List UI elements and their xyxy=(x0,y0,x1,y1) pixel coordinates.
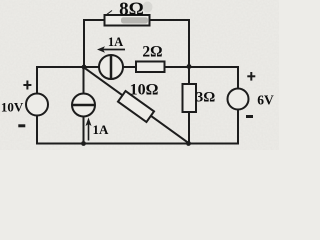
wire: right branch lower stub (6V source bottom) xyxy=(237,110,239,144)
voltage source 10V (left branch) xyxy=(26,94,48,116)
wire: middle branch lower stub (1A source to bottom rail) xyxy=(83,116,85,144)
wire: top loop right vertical down through node B to 3-ohm xyxy=(188,20,190,84)
wire: 3-ohm bottom stub to node C xyxy=(188,112,190,144)
grey scan smudge right of 8-ohm label xyxy=(143,2,153,13)
wire: middle rail, top current source to right branch corner xyxy=(123,66,238,68)
svg-text:2Ω: 2Ω xyxy=(142,44,162,61)
junction dot middle branch at bottom rail xyxy=(81,141,86,146)
wire: right branch upper stub (6V source top) xyxy=(237,67,239,89)
svg-text:1A: 1A xyxy=(108,35,123,49)
wire: middle rail, node A to top current source xyxy=(37,66,99,68)
node A junction dot (left middle) xyxy=(82,65,87,70)
polarity plus of 6V source xyxy=(247,72,255,81)
svg-text:3Ω: 3Ω xyxy=(196,90,216,106)
resistor 2-ohm (middle rail) xyxy=(136,62,165,73)
svg-text:1A: 1A xyxy=(93,122,110,137)
wire: bottom rail xyxy=(37,143,238,145)
stray pen tick left of 8-ohm label xyxy=(106,11,112,16)
svg-text:10Ω: 10Ω xyxy=(130,82,159,99)
wire: top rail through 8-ohm resistor xyxy=(84,19,189,21)
wire: left branch lower stub (10V source bottom) xyxy=(36,115,38,144)
current direction arrow (up) of bottom 1A source xyxy=(86,118,92,141)
resistor 8-ohm (top rail) xyxy=(105,15,150,26)
polarity minus of 6V source xyxy=(246,115,253,118)
wire: top loop left vertical (node A up to top rail) xyxy=(83,20,85,67)
polarity minus of 10V source xyxy=(18,124,25,127)
current source 1A (top, on middle rail) xyxy=(99,55,123,79)
node B junction dot (middle rail / 3-ohm branch) xyxy=(187,64,192,69)
voltage source 6V (right branch) xyxy=(228,89,249,110)
resistor 3-ohm (right middle branch) xyxy=(183,84,197,112)
svg-text:6V: 6V xyxy=(257,93,274,108)
wire: diagonal branch node A to node C through 10-ohm xyxy=(84,68,189,144)
wire: middle branch upper stub (node A down to 1A source) xyxy=(83,67,85,94)
wire: left branch upper stub (10V source top) xyxy=(36,67,38,94)
node C junction dot (bottom rail / 3-ohm / diagonal) xyxy=(186,141,191,146)
polarity plus of 10V source xyxy=(23,81,31,90)
current source 1A (bottom, middle branch) xyxy=(72,94,95,117)
resistor 10-ohm (diagonal branch) xyxy=(118,91,154,122)
current direction arrow (left) of top 1A source xyxy=(97,46,125,52)
svg-text:8Ω: 8Ω xyxy=(119,0,144,20)
svg-text:10V: 10V xyxy=(1,100,24,115)
